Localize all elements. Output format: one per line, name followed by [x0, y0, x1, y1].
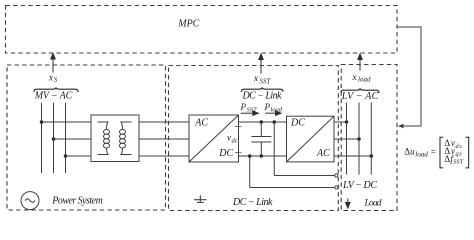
svg-text:DC − Link: DC − Link — [232, 197, 273, 208]
svg-text:AC: AC — [316, 148, 330, 159]
svg-text:SST: SST — [260, 77, 272, 85]
svg-text:SST: SST — [247, 106, 258, 113]
svg-text:DC: DC — [218, 148, 233, 159]
svg-text:LV − DC: LV − DC — [342, 180, 377, 191]
svg-text:MPC: MPC — [177, 19, 199, 30]
svg-text:MV − AC: MV − AC — [34, 91, 73, 102]
svg-text:Load: Load — [364, 199, 382, 209]
svg-text:DC: DC — [290, 118, 305, 129]
svg-text:load: load — [415, 151, 428, 159]
svg-text:P: P — [264, 102, 271, 112]
svg-text:AC: AC — [194, 117, 208, 128]
svg-text:LV − AC: LV − AC — [341, 91, 379, 102]
svg-text:load: load — [358, 76, 371, 84]
svg-text:v: v — [227, 133, 231, 143]
svg-text:x: x — [351, 73, 357, 83]
svg-text:=: = — [431, 147, 436, 157]
svg-text:x: x — [253, 74, 259, 84]
svg-text:S: S — [54, 76, 58, 84]
svg-text:Power System: Power System — [51, 195, 103, 206]
svg-text:P: P — [240, 102, 247, 112]
svg-text:dc: dc — [232, 138, 238, 145]
svg-text:DC − Link: DC − Link — [242, 91, 283, 102]
svg-text:load: load — [271, 106, 283, 113]
svg-text:Δu: Δu — [404, 147, 415, 157]
